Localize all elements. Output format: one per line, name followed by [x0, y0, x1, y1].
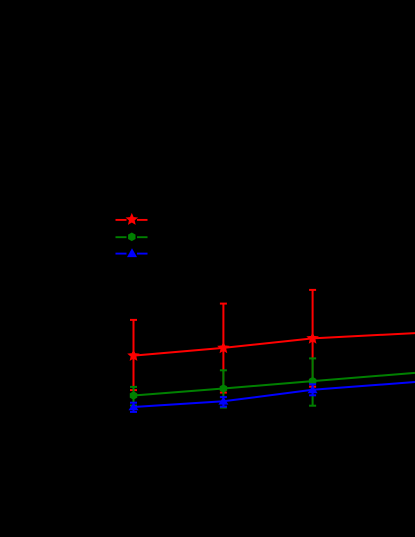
green series data line	[134, 373, 415, 396]
legend red star marker	[128, 215, 136, 223]
blue series error bar P3	[309, 384, 316, 395]
red star marker P1	[129, 351, 137, 359]
legend blue dashed line	[116, 253, 148, 255]
legend blue triangle marker	[127, 248, 137, 257]
green series error bar P1	[130, 387, 137, 406]
blue series data line	[134, 382, 415, 407]
green hexagon marker P2	[220, 384, 227, 393]
blue triangle marker P2	[218, 397, 228, 405]
red series data line	[134, 333, 415, 356]
blue triangle marker P3	[308, 385, 318, 393]
green hexagon marker P1	[130, 391, 137, 400]
green series error bar P2	[220, 370, 227, 407]
green hexagon marker P3	[309, 377, 316, 386]
red series error bar P1	[130, 320, 137, 390]
green series error bar P3	[309, 358, 316, 405]
red series error bar P2	[220, 304, 227, 393]
legend green dashed line	[116, 236, 148, 238]
blue series error bar P1	[130, 403, 137, 412]
red star marker P3	[308, 334, 316, 342]
blue series error bar P2	[220, 397, 227, 407]
red star marker P2	[219, 344, 227, 352]
legend red dashed line	[116, 219, 148, 221]
legend green hexagon marker	[128, 233, 135, 242]
red series error bar P3	[309, 290, 316, 387]
blue triangle marker P1	[129, 403, 139, 411]
